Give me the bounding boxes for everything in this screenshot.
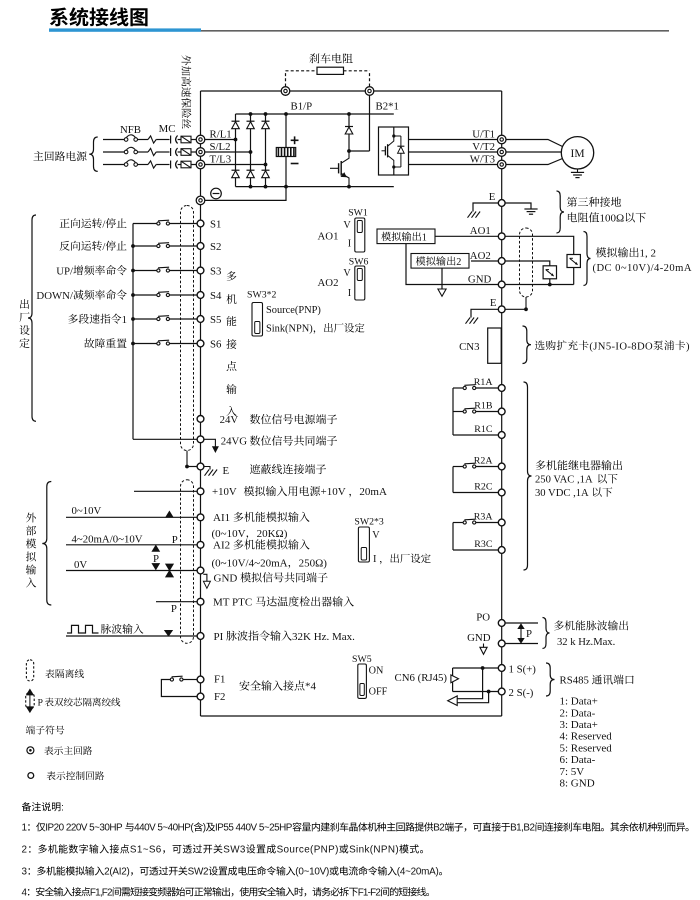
twisted pair marker AI2-0V — [152, 546, 159, 552]
label 表示控制回路 — [47, 771, 56, 780]
terminal R/L1 — [196, 135, 205, 144]
ground earth at E — [524, 208, 537, 210]
wire: AI2 row — [66, 544, 197, 546]
svg-text:1: 1 — [122, 314, 127, 326]
svg-text:B2: B2 — [433, 823, 444, 834]
symbol circled minus — [211, 188, 222, 199]
transistor IGBT inside module — [393, 127, 395, 136]
motor IM — [561, 137, 593, 169]
wire: terminal B2 down — [369, 95, 371, 151]
brace: relay outputs — [524, 382, 532, 570]
svg-text:6: Data-: 6: Data- — [560, 754, 596, 766]
terminal S/L2 — [196, 148, 205, 157]
wire: inverter bottom border — [201, 715, 502, 717]
svg-text:250 VAC ,1A: 250 VAC ,1A — [535, 475, 593, 486]
switch contact S4 — [157, 293, 160, 296]
wire: R2A group common — [452, 467, 454, 493]
wire: AO1 to meter2 — [505, 236, 574, 254]
label 主回路电源 (main circuit power) — [33, 151, 43, 160]
svg-text:IM: IM — [571, 148, 585, 160]
legend shield symbol — [26, 660, 33, 681]
diode bridge upper D2 — [247, 120, 255, 122]
diode bridge upper D1 — [232, 120, 240, 122]
arrow open down at pulse GND — [483, 644, 485, 648]
label capacitor plus — [291, 139, 299, 141]
wire: input row S1 — [133, 223, 158, 225]
wire dashed B1/P to resistor — [285, 71, 287, 87]
svg-text:(0~10V: (0~10V — [212, 528, 246, 540]
terminal E lower — [498, 306, 505, 313]
svg-text:AO2: AO2 — [470, 250, 491, 262]
junction on positive rail — [347, 112, 351, 116]
arrow down on PI — [165, 631, 172, 636]
wire: bridge leg 1 — [235, 114, 237, 187]
arrow open left at CN6 — [448, 696, 458, 706]
svg-text:SW2*3: SW2*3 — [354, 516, 383, 527]
junction on negative rail — [264, 185, 268, 189]
label 多段速指令1 — [68, 314, 78, 324]
svg-text:P: P — [153, 553, 159, 565]
wire: GND pulse out — [505, 643, 538, 645]
svg-text:Source(PNP): Source(PNP) — [266, 305, 321, 316]
svg-text:DOWN/: DOWN/ — [36, 290, 73, 302]
svg-text:S3: S3 — [210, 265, 221, 277]
wire: AO2 to meter1 — [505, 261, 550, 266]
svg-text:AI2: AI2 — [213, 540, 230, 552]
terminal S1 — [197, 220, 204, 227]
svg-text:MC: MC — [159, 123, 176, 135]
svg-text:PI: PI — [214, 631, 224, 643]
svg-text:440V 5~40HP(: 440V 5~40HP( — [134, 823, 194, 834]
terminal R1A — [498, 385, 505, 392]
svg-text:S2: S2 — [210, 241, 221, 253]
terminal 24VG — [197, 436, 204, 443]
svg-text:32 k Hz.Max.: 32 k Hz.Max. — [557, 637, 615, 648]
wire: AI1 row — [66, 516, 197, 518]
wire: box1 to AO1 — [435, 235, 498, 237]
label 故障重置 — [84, 338, 94, 348]
wire: input row S2 — [133, 245, 158, 247]
brace: power input — [89, 137, 98, 171]
label 选购扩充卡(JN5-IO-8DO泵浦卡) — [535, 340, 545, 350]
label 数位信号共同端子 — [250, 436, 260, 446]
svg-text:*4: *4 — [305, 681, 317, 693]
diode bridge lower D4 — [232, 169, 240, 171]
svg-text:S1: S1 — [210, 218, 221, 230]
svg-text:(0~10V): (0~10V) — [295, 867, 329, 878]
svg-text:250Ω): 250Ω) — [299, 557, 328, 569]
terminal S2 — [197, 243, 204, 250]
terminal PI — [197, 633, 204, 640]
label 模拟输出1,2 — [596, 247, 607, 257]
svg-text:ON: ON — [369, 666, 384, 677]
label capacitor minus — [291, 163, 299, 165]
svg-text:I: I — [348, 239, 352, 250]
svg-text:AI1: AI1 — [213, 512, 230, 524]
module: output IGBT six-pack — [379, 127, 409, 175]
svg-text:/: / — [102, 241, 105, 253]
legend main circuit terminal symbol — [27, 747, 34, 754]
wire: phase R to bridge — [205, 139, 236, 141]
svg-text:SW3*2: SW3*2 — [247, 290, 276, 301]
diode bridge upper D3 — [262, 120, 270, 122]
svg-text:4: Reserved: 4: Reserved — [560, 731, 613, 743]
wire: inverter top border / DC bus link — [201, 90, 502, 92]
terminal R2A — [498, 463, 505, 470]
svg-text:F2: F2 — [214, 691, 225, 703]
switch contact S5 — [157, 317, 160, 320]
relay contact R3A — [476, 522, 499, 524]
svg-text:AO1: AO1 — [470, 225, 491, 237]
terminal R2C — [498, 489, 505, 496]
label 外加高速保险丝 (external fast fuse), rotated — [181, 55, 191, 128]
wire: bridge leg 2 — [250, 114, 252, 187]
wire: input row S3 — [133, 270, 158, 272]
terminal MT — [197, 598, 204, 605]
wire: E lower to chassis ground — [471, 309, 498, 317]
svg-text:GND: GND — [214, 573, 238, 585]
svg-text:R2C: R2C — [474, 482, 493, 493]
svg-text:32K Hz. Max.: 32K Hz. Max. — [292, 631, 355, 643]
wire: box1 to GND — [406, 244, 498, 285]
wire: S+ feedback to arrow — [457, 668, 482, 699]
symbol pulse waveform — [67, 625, 99, 633]
terminal S4 — [197, 292, 204, 299]
svg-text:24V: 24V — [220, 414, 239, 426]
svg-text:OFF: OFF — [369, 687, 388, 698]
svg-text:4~20mA/0~10V: 4~20mA/0~10V — [72, 533, 143, 545]
breaker NFB contact S/L2 — [124, 150, 128, 154]
svg-text:UP/: UP/ — [56, 265, 73, 277]
svg-text:3: 3 — [22, 867, 28, 878]
junction S+ — [481, 666, 485, 670]
junction on negative rail — [347, 185, 351, 189]
twisted pair bowtie on 0V — [166, 564, 173, 570]
wire: 0V GND row — [66, 570, 197, 572]
junction S- — [487, 690, 491, 694]
label 脉波输入 — [101, 624, 111, 634]
wire: R1A group common — [452, 388, 454, 435]
wire: F1 loop — [183, 679, 197, 681]
svg-text:0~10V: 0~10V — [72, 505, 102, 517]
svg-text:B1,B2: B1,B2 — [510, 823, 534, 834]
terminal PO — [498, 620, 505, 627]
brace: RS485 port — [546, 663, 555, 696]
svg-text:V: V — [343, 268, 351, 279]
terminal S6 — [197, 340, 204, 347]
relay contact R1B — [476, 411, 499, 413]
svg-text:R1C: R1C — [474, 424, 493, 435]
wire: R1C line — [453, 434, 498, 436]
svg-text:E: E — [490, 297, 497, 309]
svg-text:5: Reserved: 5: Reserved — [560, 742, 613, 754]
fuse R/L1 (external fast fuse) — [181, 136, 191, 143]
terminal U/T1 — [497, 135, 506, 144]
svg-text:T/L3: T/L3 — [210, 153, 232, 165]
wire: +10V row — [134, 490, 197, 492]
svg-text:AO2: AO2 — [318, 277, 339, 289]
svg-text:Sink(NPN): Sink(NPN) — [349, 845, 399, 856]
junction bus S5 — [131, 317, 135, 321]
wire: GND return for meters — [505, 284, 574, 286]
wire: phase S/L2 input line — [103, 151, 124, 153]
svg-text:CN6 (RJ45): CN6 (RJ45) — [395, 672, 448, 684]
arrow filled down at 24VG — [204, 439, 216, 447]
breaker trip element S/L2 — [148, 148, 156, 155]
wire: input row S5 — [133, 318, 158, 320]
svg-text:30 VDC ,1A: 30 VDC ,1A — [535, 488, 589, 499]
wire: DC minus to bridge negative rail — [205, 187, 286, 201]
junction shield drain E — [185, 465, 189, 469]
wire: bridge positive rail — [236, 113, 394, 115]
legend twisted pair symbol — [26, 693, 35, 710]
svg-text:S5: S5 — [210, 314, 221, 326]
svg-text:(DC 0~10V)/4-20mA: (DC 0~10V)/4-20mA — [593, 263, 692, 274]
svg-text:AO1: AO1 — [318, 231, 339, 243]
label 端子符号 — [26, 726, 35, 735]
junction on positive rail — [284, 112, 288, 116]
svg-text:S6: S6 — [210, 338, 222, 350]
arrow open down at GND analog — [203, 574, 207, 581]
svg-text:1 S(+): 1 S(+) — [509, 663, 537, 675]
brace: analog outputs — [584, 232, 591, 286]
svg-text:7: 5V: 7: 5V — [560, 766, 585, 778]
svg-text:U/T1: U/T1 — [472, 129, 495, 141]
twisted pair arrow P — [520, 628, 522, 639]
wire: chopper branch from positive rail — [348, 114, 350, 126]
wire: node B2 link — [349, 150, 370, 152]
terminal T/L3 — [196, 160, 205, 169]
svg-text:R1A: R1A — [474, 377, 494, 388]
brace: third type grounding — [557, 191, 565, 233]
emitter arrow brake IGBT — [342, 173, 346, 176]
wire: E to chassis ground — [473, 203, 498, 212]
breaker NFB contact R/L1 — [124, 138, 128, 142]
junction bus S2 — [131, 244, 135, 248]
terminal GND analog out — [498, 281, 505, 288]
wire: V to motor — [506, 151, 562, 153]
wire: output V/T2 — [409, 151, 498, 153]
svg-text:Source(PNP): Source(PNP) — [277, 845, 339, 856]
svg-text:F1,F2: F1,F2 — [90, 887, 112, 898]
terminal GND analog in — [197, 567, 204, 574]
wire: phase T/L3 input line — [103, 164, 124, 166]
terminal R3C — [498, 547, 505, 554]
capacitor: DC bus electrolytic — [285, 114, 287, 148]
wire: S- line — [453, 691, 499, 693]
terminal S5 — [197, 316, 204, 323]
label 遮蔽线连接端子 — [250, 464, 260, 474]
switch contact S2 — [157, 244, 160, 247]
wire: S- feedback to arrow — [457, 692, 488, 703]
wire: box2 to AO2 — [471, 260, 498, 262]
terminal R3A — [498, 519, 505, 526]
meter load 1 (on AO2) — [543, 266, 556, 279]
svg-text:Sink(NPN): Sink(NPN) — [266, 324, 313, 335]
svg-text:P: P — [171, 603, 177, 615]
terminal 1 S(+) — [498, 665, 505, 672]
arrow open right at CN6 — [451, 675, 459, 683]
svg-text:2: 2 — [456, 257, 461, 268]
svg-text:SW5: SW5 — [352, 654, 372, 665]
ground: motor earth — [577, 169, 579, 172]
shield: analog input cable — [181, 480, 194, 644]
brace: pulse output — [543, 618, 550, 649]
label 数位信号电源端子 — [250, 414, 260, 424]
junction bus S4 — [131, 293, 135, 297]
svg-text:2(AI2): 2(AI2) — [104, 867, 129, 878]
arrow open down under box2 — [441, 268, 443, 289]
terminal W/T3 — [497, 160, 506, 169]
shield: analog output shielded cable — [520, 228, 533, 297]
svg-text:I: I — [373, 554, 377, 565]
diode bridge lower D6 — [262, 169, 270, 171]
svg-text:2: 2 — [22, 845, 28, 856]
label 表隔离线 — [45, 669, 54, 678]
switch contact S3 — [157, 269, 160, 272]
relay contact R2A — [476, 466, 499, 468]
label 刹车电阻 (brake resistor) — [310, 53, 320, 63]
svg-text:): ) — [203, 823, 206, 834]
diode brake chopper — [345, 126, 353, 128]
terminal B2 — [365, 87, 374, 96]
svg-text:2: Data-: 2: Data- — [560, 707, 596, 719]
svg-text:2 S(-): 2 S(-) — [509, 687, 534, 699]
breaker NFB contact T/L3 — [124, 163, 128, 167]
svg-text:GND: GND — [468, 273, 492, 285]
wire: S+ line — [453, 667, 499, 669]
terminal F2 — [197, 693, 204, 700]
svg-text:CN3: CN3 — [459, 341, 479, 353]
terminal AO1 — [498, 233, 505, 240]
svg-text:20KΩ): 20KΩ) — [257, 528, 288, 540]
terminal GND pulse — [498, 640, 505, 647]
svg-text:/: / — [102, 218, 105, 230]
wire: to terminal E — [187, 466, 197, 468]
junction bus S6 — [131, 342, 135, 346]
shield: digital input cable — [181, 206, 194, 451]
wire: chopper diode to node B2 — [348, 134, 350, 151]
box 模拟输出2 — [411, 254, 469, 269]
junction on positive rail — [264, 112, 268, 116]
svg-text:F1-F2: F1-F2 — [358, 887, 381, 898]
svg-text:E: E — [489, 191, 496, 203]
terminal AO2 — [498, 258, 505, 265]
svg-text:): ) — [686, 341, 690, 352]
wire: phase R/L1 input line — [103, 139, 124, 141]
fuse T/L3 (external fast fuse) — [181, 161, 191, 168]
svg-text:(4~20mA): (4~20mA) — [397, 867, 439, 878]
svg-text:SW3: SW3 — [223, 845, 246, 856]
svg-text:100Ω: 100Ω — [600, 213, 625, 225]
svg-text:RS485: RS485 — [560, 675, 589, 687]
switch contact S6 — [157, 342, 160, 345]
svg-text:MT PTC: MT PTC — [213, 597, 252, 609]
breaker trip element R/L1 — [148, 136, 156, 143]
brace: external analog input — [42, 482, 51, 606]
junction node B2 — [347, 149, 351, 153]
terminal AI1 — [197, 514, 204, 521]
wire: input row S6 — [133, 343, 158, 345]
wire: inverter left border — [200, 91, 202, 716]
svg-text:3: Data+: 3: Data+ — [560, 719, 598, 731]
ground chassis at E — [468, 212, 473, 218]
arrow up on AI1 — [166, 512, 173, 518]
wire: R3C line — [453, 549, 498, 551]
fuse S/L2 (external fast fuse) — [181, 149, 191, 156]
box 模拟输出1 — [377, 229, 435, 244]
contactor MC contact T/L3 — [170, 161, 172, 169]
svg-text:PO: PO — [476, 612, 490, 624]
label 电阻值100Ω以下 — [568, 212, 577, 222]
svg-text:P: P — [172, 534, 178, 546]
svg-text:+10V: +10V — [321, 486, 346, 498]
label 表示主回路 — [44, 746, 53, 755]
svg-text:V: V — [343, 220, 351, 231]
svg-text:+10V: +10V — [212, 486, 237, 498]
ground chassis at E shield — [204, 467, 210, 470]
svg-text:(0~10V/4~20mA: (0~10V/4~20mA — [212, 557, 288, 569]
contactor MC contact R/L1 — [170, 136, 172, 144]
svg-text:P: P — [526, 628, 532, 640]
svg-text:1: 1 — [422, 232, 427, 243]
brace: factory setting group — [28, 215, 36, 421]
junction shield drain — [524, 307, 528, 311]
wire: output U/T1 — [409, 139, 498, 141]
junction bus S3 — [131, 269, 135, 273]
svg-text:1: Data+: 1: Data+ — [560, 696, 598, 708]
wire: output W/T3 — [409, 164, 498, 166]
wire: PI row — [66, 635, 197, 637]
terminal AI2 — [197, 541, 204, 548]
wire: inverter right border — [501, 91, 503, 716]
svg-text:S/L2: S/L2 — [210, 141, 231, 153]
switch contact F1-F2 jumper — [170, 678, 173, 681]
label 安全输入接点 *4 — [239, 680, 249, 690]
terminal E upper — [498, 200, 505, 207]
contactor MC contact S/L2 — [170, 148, 172, 156]
title 系统接线图 — [50, 7, 68, 26]
svg-text:SW2: SW2 — [188, 867, 209, 878]
wire: bus to 24VG — [133, 438, 197, 440]
svg-text:E: E — [223, 465, 230, 477]
legend control circuit terminal symbol — [28, 773, 34, 779]
switch contact S1 — [157, 222, 160, 225]
label 出厂设定 vertical — [20, 299, 29, 309]
svg-text:V: V — [372, 530, 380, 541]
label 正向运转/停止 — [60, 219, 70, 228]
terminal 24V — [197, 416, 204, 423]
wire: U to motor — [506, 140, 563, 147]
svg-text:S1~S6: S1~S6 — [130, 845, 162, 856]
svg-text:R2A: R2A — [474, 456, 494, 467]
svg-text:SW1: SW1 — [348, 208, 368, 219]
wire: phase T to bridge — [205, 164, 266, 166]
svg-text:R3A: R3A — [474, 512, 494, 523]
breaker trip element T/L3 — [148, 161, 156, 168]
label 多机能脉波输出 — [554, 621, 564, 631]
svg-text:F1: F1 — [214, 673, 225, 685]
diode freewheel inside module — [394, 135, 401, 137]
brace: option card — [523, 326, 532, 364]
wire: bridge negative rail — [236, 186, 394, 188]
connector CN3 — [488, 328, 502, 363]
wire: digital shield drain — [186, 451, 188, 467]
svg-text:B1/P: B1/P — [291, 101, 313, 113]
svg-text:W/T3: W/T3 — [470, 154, 495, 166]
terminal +10V — [197, 488, 204, 495]
svg-text:8: GND: 8: GND — [560, 778, 595, 790]
